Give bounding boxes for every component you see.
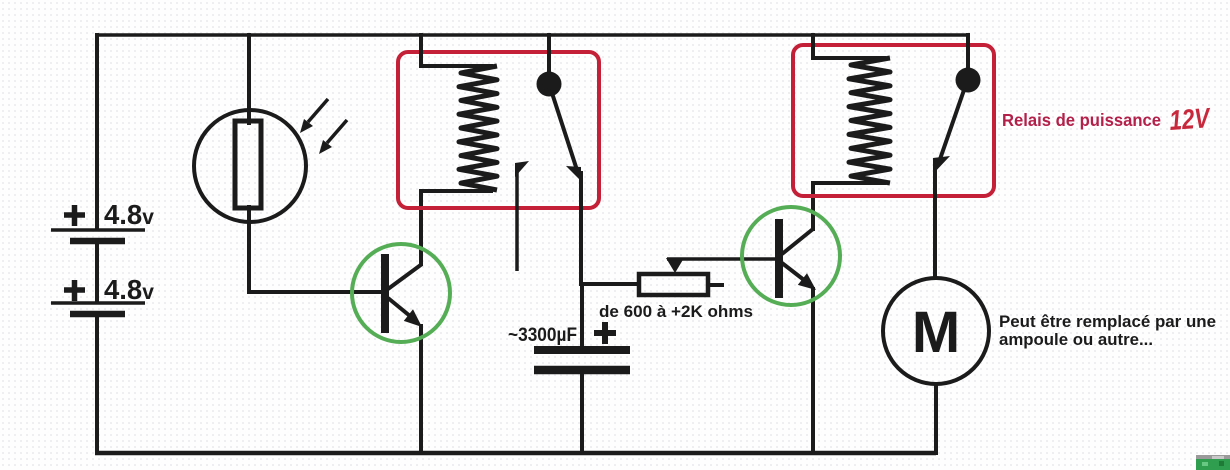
capacitor C1 top plate <box>534 346 630 354</box>
relay RL2 coil top stub <box>811 56 886 60</box>
potentiometer P1 right stub <box>708 283 724 287</box>
transistor Q1 emitter diagonal <box>388 298 410 316</box>
wire: base wire to Q1 <box>247 290 384 294</box>
relay RL1 coil winding <box>459 66 497 190</box>
photoresistor LDR circle <box>194 110 306 222</box>
potentiometer P1 wiper arrow <box>666 258 684 273</box>
svg-text:4.8v: 4.8v <box>104 199 154 230</box>
relay RL1 pivot dot <box>537 72 562 97</box>
transistor Q2 collector diagonal <box>782 229 813 254</box>
relay RL2 pivot dot <box>956 68 981 93</box>
wire: capacitor to ground rail <box>580 374 584 454</box>
transistor Q2 base bar <box>775 219 783 298</box>
wire: motor to ground rail <box>934 384 938 455</box>
wire: left battery wire lower <box>95 315 99 455</box>
wire: bottom ground rail <box>95 451 936 456</box>
photoresistor LDR body rectangle <box>235 121 261 208</box>
battery B2 negative plate <box>70 311 125 318</box>
wire: node to potentiometer <box>581 282 638 286</box>
svg-text:Peut être remplacé par une: Peut être remplacé par une <box>999 313 1216 331</box>
relay RL1 red box <box>398 52 599 208</box>
wire: left battery wire upper <box>95 33 99 230</box>
relay RL1 open contact stub <box>515 168 519 271</box>
battery B1 negative plate <box>70 238 125 245</box>
wire: Q1 emitter to ground rail <box>419 324 423 454</box>
relay RL2 contact flag <box>933 156 950 174</box>
relay RL1 switch lever <box>552 93 577 170</box>
web counter badge <box>1196 455 1230 470</box>
svg-text:~3300µF: ~3300µF <box>508 325 577 346</box>
wire: relay RL2 coil top feed <box>811 33 815 58</box>
capacitor C1 bottom plate <box>534 366 630 375</box>
svg-text:M: M <box>912 300 960 365</box>
wire: relay RL1 coil top feed <box>419 33 423 66</box>
relay RL2 red box <box>793 45 994 196</box>
wire: RL1 contact down to node <box>579 171 583 286</box>
wire: RL2 contact to motor <box>933 163 937 280</box>
wire: LDR bottom wire <box>247 205 251 292</box>
transistor Q1 base bar <box>381 254 389 333</box>
battery B1 plus sign <box>64 205 85 226</box>
capacitor C1 plus sign <box>594 322 616 344</box>
light arrow 2 <box>327 120 347 143</box>
wire: left battery wire middle <box>95 242 99 303</box>
transistor Q2 green circle <box>742 207 840 305</box>
transistor Q2 emitter diagonal <box>782 263 804 280</box>
relay RL1 coil bottom stub <box>419 189 493 193</box>
svg-text:Relais de puissance: Relais de puissance <box>1002 110 1161 130</box>
wire: top supply rail <box>96 33 968 37</box>
motor M1 circle <box>883 278 989 384</box>
svg-text:4.8v: 4.8v <box>104 274 154 305</box>
transistor Q1 emitter arrowhead <box>404 309 422 327</box>
svg-text:ampoule ou autre...: ampoule ou autre... <box>999 331 1153 349</box>
wire: top rail drop to RL2 common <box>966 33 970 70</box>
wire: relay RL1 common feed from rail <box>547 33 551 74</box>
svg-text:12V: 12V <box>1168 102 1212 136</box>
wire: LDR top wire <box>247 33 251 125</box>
relay RL2 coil bottom stub <box>811 181 886 185</box>
battery B1 positive plate <box>51 228 145 232</box>
potentiometer P1 body <box>639 274 708 295</box>
relay RL2 coil winding <box>849 58 890 183</box>
light arrow 1 <box>308 99 328 122</box>
transistor Q1 green circle <box>352 244 450 342</box>
relay RL1 lever contact flag <box>566 166 581 181</box>
transistor Q1 collector diagonal <box>388 264 422 289</box>
wire: Q2 emitter to ground rail <box>811 287 815 454</box>
transistor Q2 emitter arrowhead <box>798 273 816 290</box>
relay RL2 switch lever <box>939 90 964 162</box>
battery B2 positive plate <box>51 301 145 305</box>
wire: Q2 collector to relay RL2 coil <box>811 184 815 231</box>
battery B2 plus sign <box>64 280 85 301</box>
relay RL1 coil top stub <box>419 64 493 68</box>
wire: Q1 collector to relay coil <box>419 192 423 266</box>
wire: wiper to Q2 base <box>667 257 779 261</box>
svg-text:de 600 à +2K ohms: de 600 à +2K ohms <box>599 302 753 321</box>
capacitor C1 top lead <box>580 284 584 347</box>
relay RL1 open contact flag <box>515 161 529 177</box>
